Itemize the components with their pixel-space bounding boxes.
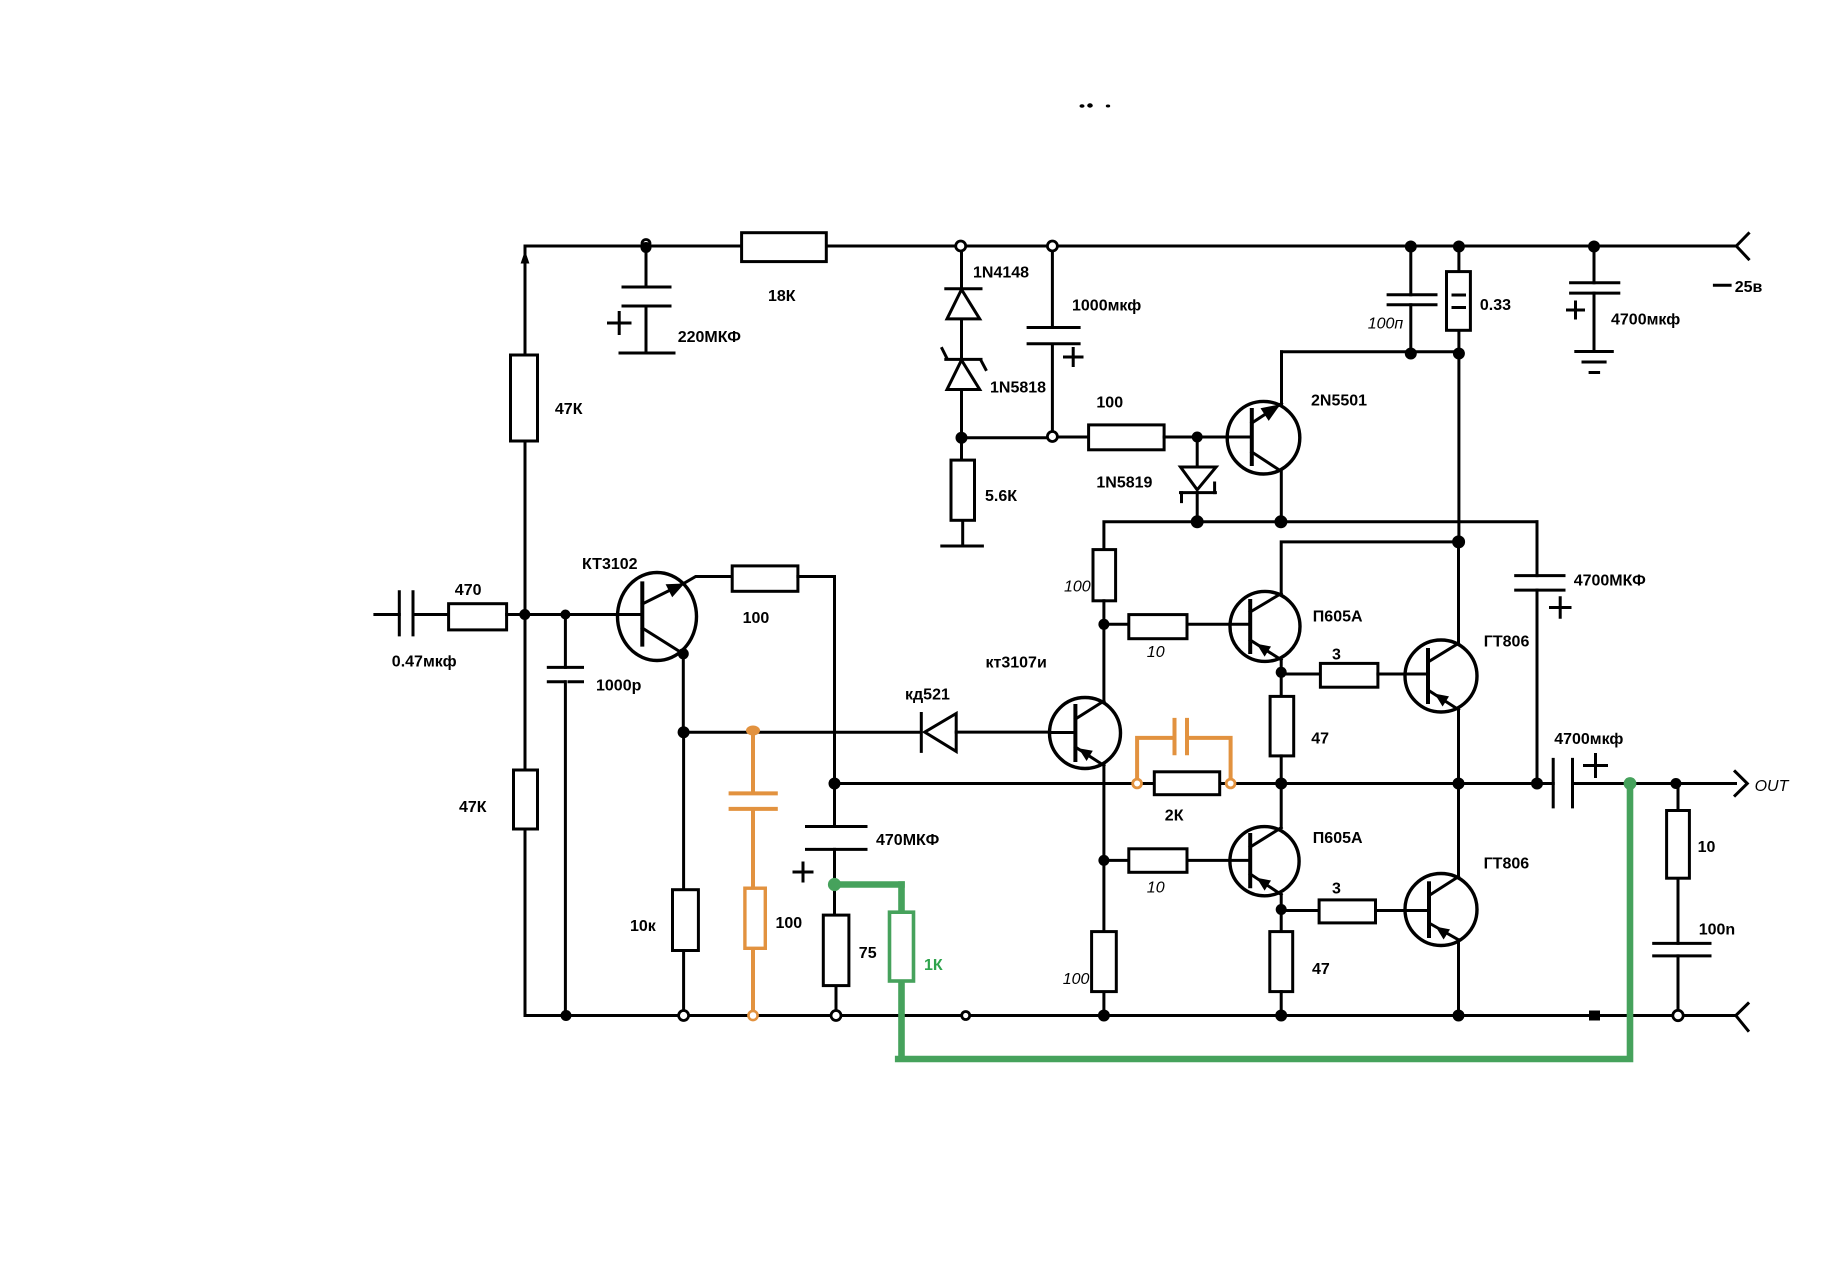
svg-text:ГТ806: ГТ806 [1484, 634, 1530, 651]
svg-text:220МКФ: 220МКФ [678, 329, 742, 346]
svg-text:18К: 18К [768, 288, 796, 305]
svg-text:2N5501: 2N5501 [1311, 393, 1367, 410]
svg-text:1N4148: 1N4148 [973, 265, 1029, 282]
svg-text:кд521: кд521 [905, 687, 950, 704]
svg-text:47К: 47К [459, 799, 487, 816]
svg-text:100: 100 [1063, 971, 1090, 988]
svg-text:кт3107и: кт3107и [986, 655, 1047, 672]
svg-text:47: 47 [1312, 961, 1330, 978]
svg-text:1К: 1К [924, 957, 943, 974]
svg-text:5.6К: 5.6К [985, 488, 1017, 505]
svg-text:10: 10 [1147, 644, 1165, 661]
svg-text:100: 100 [743, 610, 770, 627]
svg-text:1N5818: 1N5818 [990, 380, 1046, 397]
svg-text:10: 10 [1147, 880, 1165, 897]
svg-text:1000р: 1000р [596, 678, 642, 695]
svg-text:0.33: 0.33 [1480, 297, 1511, 314]
svg-text:4700мкф: 4700мкф [1611, 312, 1680, 329]
svg-text:10: 10 [1698, 839, 1716, 856]
svg-text:100n: 100n [1699, 922, 1735, 939]
svg-text:47: 47 [1311, 731, 1329, 748]
svg-text:100п: 100п [1368, 316, 1404, 333]
svg-text:0.47мкф: 0.47мкф [392, 654, 457, 671]
svg-text:470МКФ: 470МКФ [876, 832, 940, 849]
svg-text:4700МКФ: 4700МКФ [1574, 573, 1646, 590]
svg-text:2К: 2К [1165, 808, 1184, 825]
svg-text:1N5819: 1N5819 [1096, 475, 1152, 492]
svg-text:ГТ806: ГТ806 [1484, 856, 1530, 873]
svg-text:1000мкф: 1000мкф [1072, 298, 1141, 315]
svg-text:4700мкф: 4700мкф [1554, 731, 1623, 748]
svg-text:75: 75 [859, 945, 877, 962]
svg-text:П605А: П605А [1313, 609, 1363, 626]
svg-text:100: 100 [776, 915, 803, 932]
svg-text:П605А: П605А [1313, 830, 1363, 847]
svg-text:OUT: OUT [1755, 778, 1790, 795]
svg-text:КТ3102: КТ3102 [582, 556, 638, 573]
svg-text:470: 470 [455, 582, 482, 599]
svg-text:100: 100 [1096, 395, 1123, 412]
svg-text:47К: 47К [555, 401, 583, 418]
svg-text:25в: 25в [1735, 279, 1763, 296]
svg-text:3: 3 [1332, 881, 1341, 898]
svg-text:100: 100 [1064, 579, 1091, 596]
svg-text:10к: 10к [630, 918, 657, 935]
svg-text:3: 3 [1332, 647, 1341, 664]
